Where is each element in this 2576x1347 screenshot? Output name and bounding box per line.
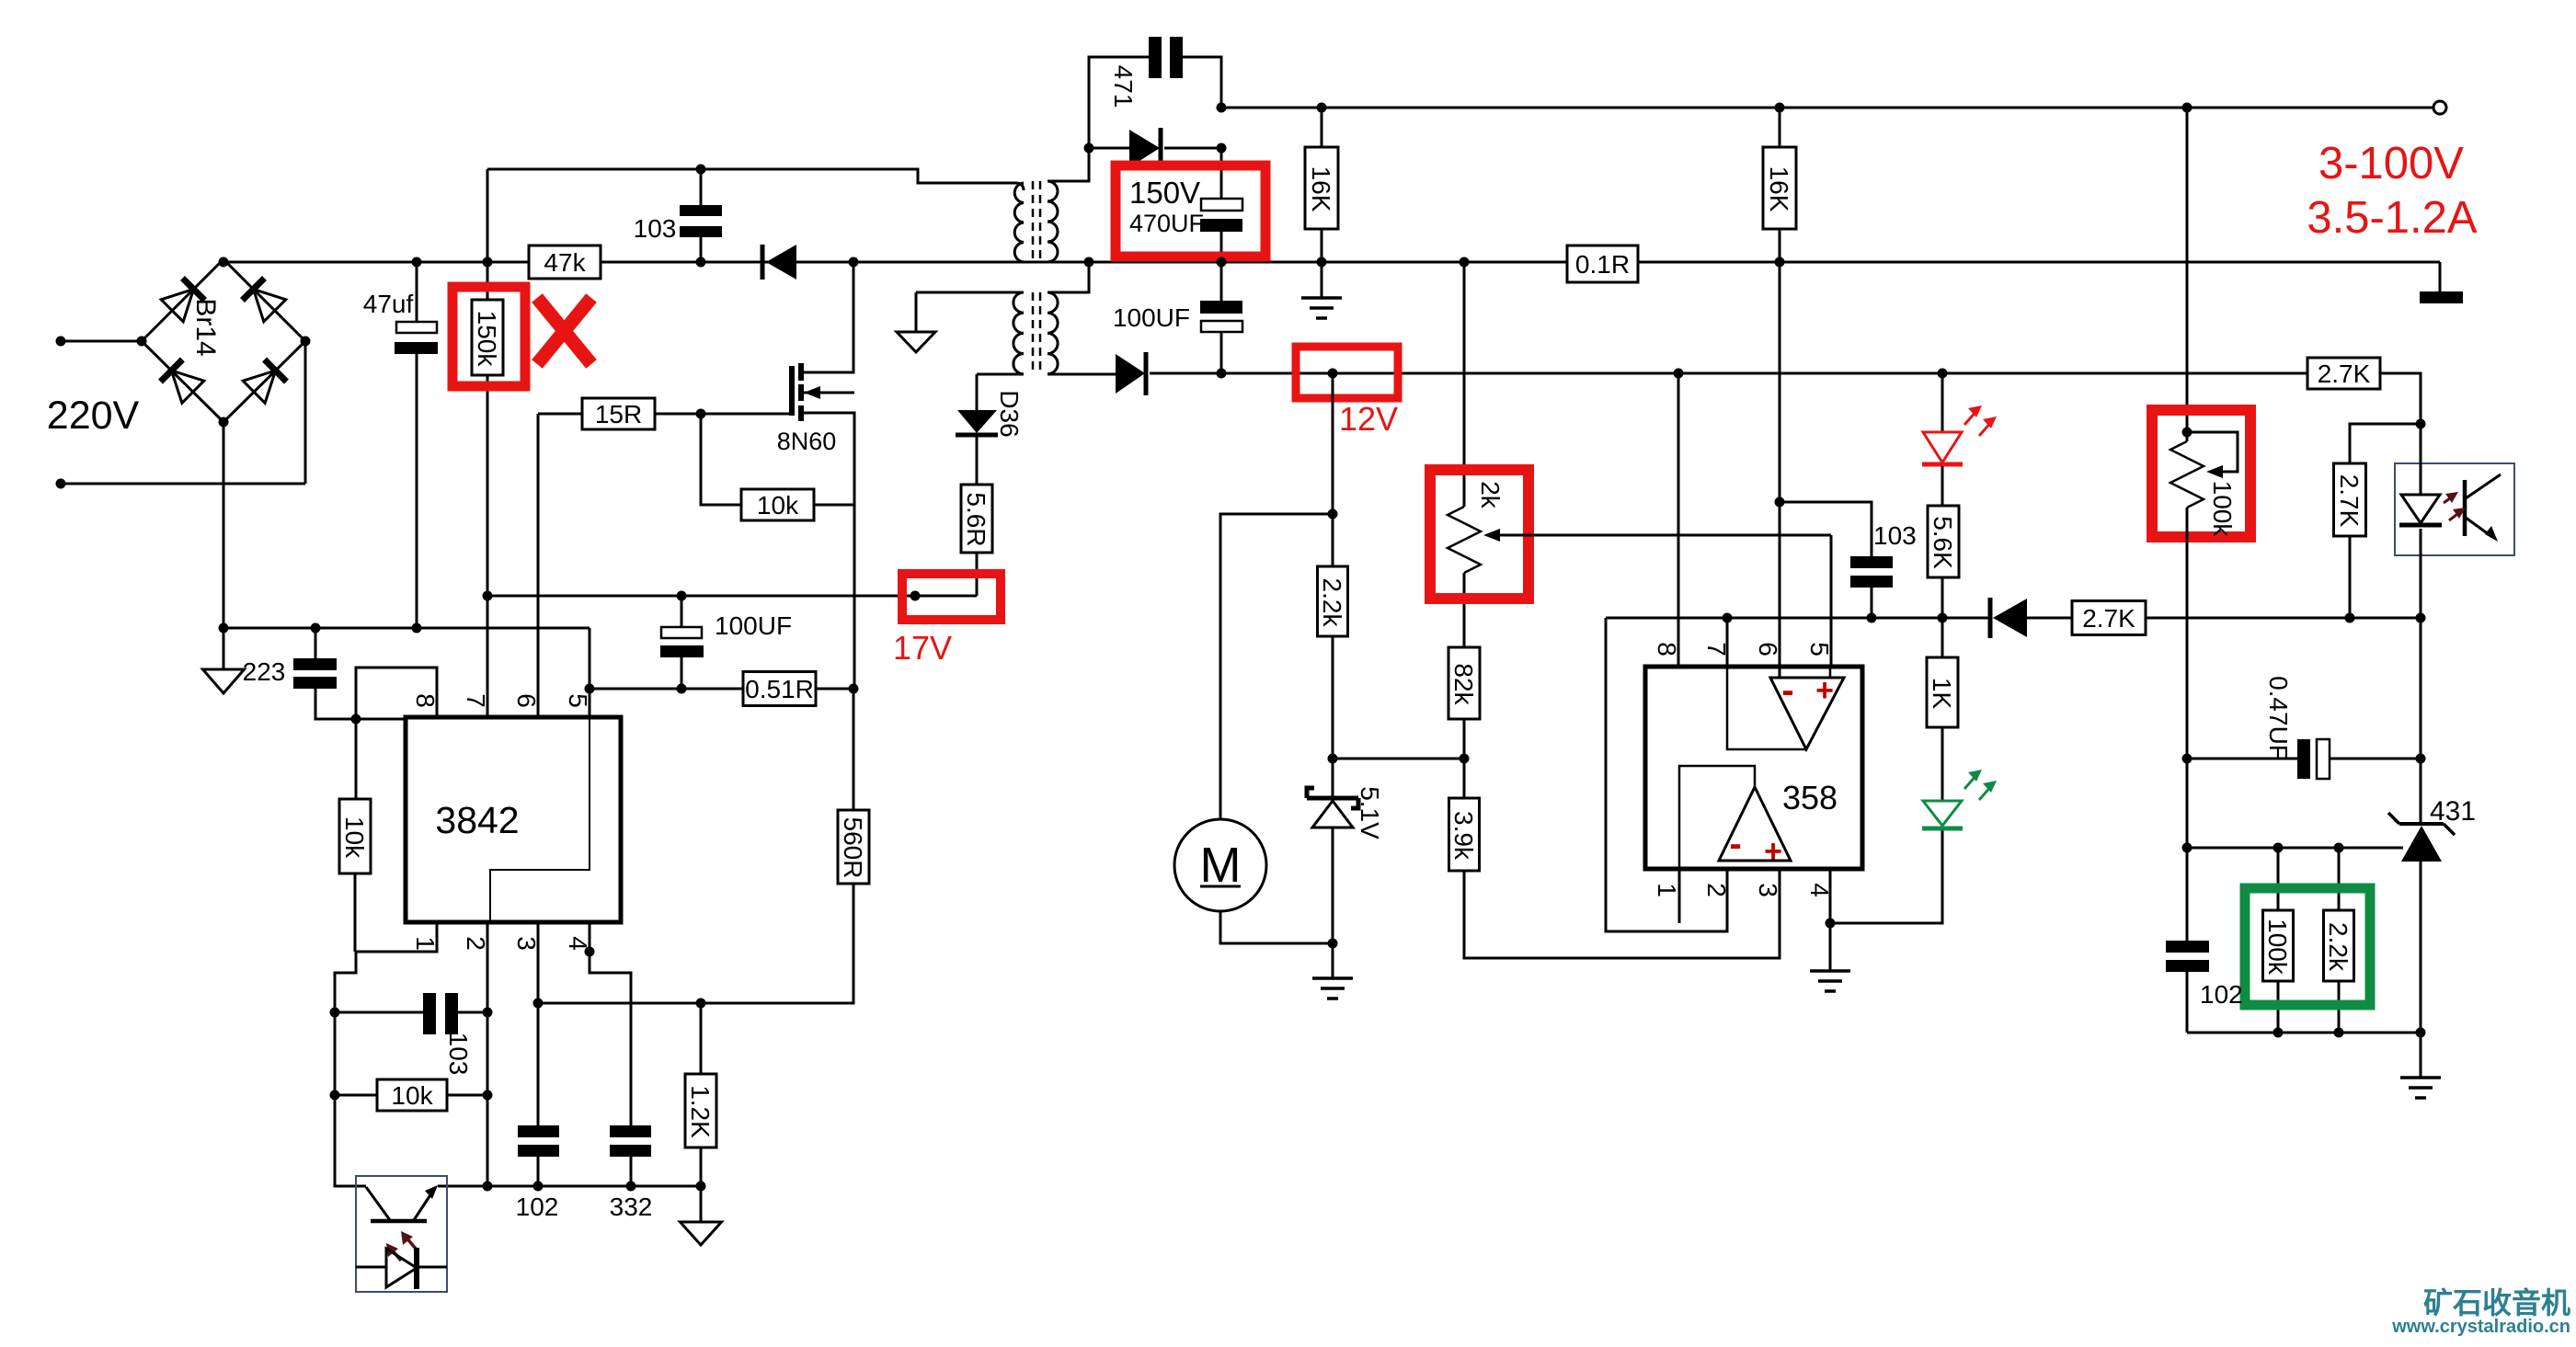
- svg-text:3: 3: [512, 936, 541, 951]
- wire 358 pin7 stub: [1726, 617, 1729, 667]
- wire pin4 route: [590, 922, 631, 1125]
- node source sense: [849, 684, 859, 694]
- wire 431 gnd stub: [2420, 1033, 2422, 1078]
- LED green indicator: [1922, 727, 1997, 828]
- capacitor 223: [293, 658, 337, 689]
- wire 332 bottom: [630, 1157, 633, 1186]
- bridge diode D4 (bottom to right): [243, 360, 286, 403]
- node pin8-12V: [1674, 369, 1684, 379]
- terminal output plus (open circle): [2433, 101, 2446, 114]
- label pin 8: [411, 693, 440, 708]
- node 2.7Kv bottom: [2345, 613, 2355, 623]
- resistor 150k: [472, 300, 503, 375]
- svg-text:560R: 560R: [839, 817, 867, 879]
- svg-text:102: 102: [516, 1193, 559, 1221]
- wire 150V cap bottom: [1220, 232, 1223, 262]
- svg-text:3.5-1.2A: 3.5-1.2A: [2307, 193, 2478, 243]
- potentiometer 100k: [2170, 441, 2204, 508]
- wire 102r top: [2186, 848, 2189, 941]
- node pin5: [585, 684, 595, 694]
- wire 150V cap top: [1220, 148, 1223, 199]
- resistor 2.7K mid: [2072, 601, 2146, 635]
- wire 223 gnd stub: [223, 628, 225, 669]
- op-amp U2B inputs: [1729, 824, 1782, 869]
- resistor 10k fb: [377, 1079, 447, 1111]
- potentiometer 100k wiper: [2187, 432, 2238, 478]
- transistor Q1 8N60 gate bar: [789, 366, 795, 416]
- resistor 560R: [838, 810, 869, 884]
- node 16K1 top: [1317, 103, 1327, 113]
- svg-text:5: 5: [564, 693, 592, 708]
- wire primary ground rail y683: [223, 628, 590, 689]
- node 103t bottom: [696, 257, 706, 268]
- label 102: [516, 1193, 559, 1221]
- optocoupler U3 phototransistor: [366, 1185, 438, 1221]
- wire 100UF2 top: [1220, 262, 1223, 301]
- svg-text:5.1V: 5.1V: [1356, 786, 1384, 839]
- wire pin5 row: [590, 688, 743, 691]
- svg-text:47uf: 47uf: [363, 290, 414, 318]
- wire 471 left: [1089, 57, 1149, 148]
- label 103 top: [634, 214, 677, 243]
- svg-text:5: 5: [1805, 642, 1834, 656]
- red box 12V: [1296, 347, 1398, 398]
- wire 12V rail y406: [1221, 372, 2307, 375]
- label pin 2: [462, 936, 490, 951]
- node bridge left: [137, 337, 147, 347]
- svg-text:332: 332: [610, 1193, 653, 1221]
- wire pin2 column: [487, 922, 489, 1186]
- wire pin8 route: [356, 668, 437, 719]
- label 3842: [435, 799, 519, 841]
- node 223 top: [311, 623, 321, 634]
- label 220V: [47, 394, 140, 438]
- transformer aux winding: [1013, 292, 1024, 374]
- wire 103t top stub: [700, 169, 703, 205]
- label 2k: [1476, 481, 1505, 509]
- svg-text:150V: 150V: [1129, 176, 1200, 210]
- op-amp U2A inputs: [1781, 670, 1834, 711]
- svg-text:100UF: 100UF: [1113, 303, 1190, 332]
- svg-text:M: M: [1200, 838, 1242, 893]
- label 0.47UF: [2264, 676, 2293, 760]
- wire 358 pin1 stub: [1678, 869, 1681, 923]
- resistor 2.2k: [1318, 566, 1348, 636]
- svg-text:470UF: 470UF: [1129, 210, 1204, 237]
- node drain junction: [849, 257, 859, 268]
- wire secondary top exit: [1048, 148, 1089, 181]
- wire 358 pin4 stub: [1829, 869, 1832, 923]
- label 100UF left: [715, 611, 792, 640]
- node gnd rail left: [219, 623, 229, 634]
- wire drain vertical: [804, 262, 853, 372]
- capacitor 471: [1149, 37, 1183, 78]
- svg-text:2k: 2k: [1476, 481, 1505, 509]
- wire 100k pot top: [2186, 108, 2189, 441]
- capacitor 103 (snubber): [680, 205, 722, 237]
- svg-text:www.crystalradio.cn: www.crystalradio.cn: [2391, 1317, 2570, 1337]
- wire op1 out route: [1727, 667, 1806, 749]
- svg-text:102: 102: [2200, 980, 2243, 1009]
- transistor Q1 8N60 source+body: [804, 386, 854, 690]
- bridge diode D3 (bottom to left): [161, 360, 204, 403]
- node fbb 431: [2416, 1028, 2426, 1038]
- wire 358 pin8 stub: [1677, 373, 1680, 667]
- wire 560R top: [853, 689, 855, 810]
- wire aux bottom exit: [977, 373, 1024, 376]
- wire gate y450: [538, 413, 789, 416]
- svg-text:10k: 10k: [391, 1081, 433, 1110]
- wire motor bottom: [1220, 911, 1333, 943]
- svg-text:3842: 3842: [435, 799, 519, 841]
- wire 0.47UF right: [2330, 758, 2421, 760]
- node 16K2 rail: [1775, 257, 1785, 268]
- wire 103b right: [458, 1011, 487, 1014]
- label D36: [995, 390, 1024, 437]
- svg-text:100UF: 100UF: [715, 611, 792, 640]
- svg-text:1: 1: [1653, 883, 1681, 897]
- label 223: [243, 657, 286, 686]
- wire 560R bottom: [701, 884, 853, 1003]
- wire 82k bottom: [1463, 719, 1466, 798]
- svg-text:16K: 16K: [1307, 166, 1335, 212]
- svg-text:Br14: Br14: [190, 298, 221, 356]
- node 12V test: [1328, 369, 1338, 379]
- node 100UF1 bottom: [677, 684, 687, 694]
- node pin3-560R junction: [533, 999, 544, 1009]
- svg-text:100k: 100k: [2208, 481, 2237, 538]
- node motor gnd junction: [1328, 939, 1338, 949]
- node div 100k: [2273, 843, 2284, 853]
- wire op2 out route: [1679, 766, 1755, 869]
- node pin4 jog: [585, 947, 595, 957]
- optocoupler U3 LED: [356, 1248, 447, 1289]
- node 0.47UF left: [2182, 754, 2192, 764]
- resistor 2.7K vertical: [2334, 463, 2366, 536]
- label 5.1V: [1356, 786, 1384, 839]
- capacitor 470UF 150V: [1200, 199, 1242, 232]
- resistor 3.9k: [1449, 798, 1480, 871]
- ground 16K1: [1301, 298, 1342, 318]
- svg-text:8: 8: [1653, 642, 1681, 656]
- resistor 16K right: [1763, 108, 1796, 229]
- svg-text:2: 2: [462, 936, 490, 951]
- node pin8-10k-223: [351, 714, 361, 725]
- svg-text:8N60: 8N60: [777, 428, 837, 455]
- ground aux (triangle): [897, 332, 935, 352]
- svg-text:2: 2: [1702, 883, 1731, 897]
- wire 47uf bottom stub: [416, 354, 418, 628]
- svg-text:16K: 16K: [1765, 166, 1793, 212]
- svg-text:103: 103: [444, 1033, 473, 1076]
- optocoupler U4 LED: [2399, 424, 2442, 618]
- resistor 15R: [582, 398, 655, 429]
- ground zener: [1312, 978, 1353, 999]
- label 103 bottom: [444, 1033, 473, 1076]
- resistor 47k: [529, 245, 601, 279]
- resistor 5.6K: [1928, 466, 1959, 618]
- node fbb 100k: [2273, 1028, 2284, 1038]
- svg-text:3: 3: [1754, 883, 1782, 897]
- label 358 pin 5: [1805, 642, 1834, 656]
- diode snubber (points left): [701, 245, 853, 280]
- wire primary top entry: [1015, 183, 1024, 190]
- svg-text:2.7K: 2.7K: [2335, 474, 2364, 528]
- wire 103r top route: [1779, 502, 1872, 556]
- wire N to bridge right vertex: [304, 341, 307, 484]
- node 103t top: [696, 165, 706, 175]
- wire main HV rail y285: [223, 261, 2440, 264]
- svg-text:0.47UF: 0.47UF: [2264, 676, 2293, 760]
- wire 358 pin6 stub: [1779, 667, 1781, 678]
- optocoupler U3 light arrows: [386, 1231, 416, 1261]
- svg-text:358: 358: [1782, 779, 1838, 816]
- wire pin6 stub: [537, 414, 540, 717]
- label 470UF: [1129, 210, 1204, 237]
- node 47uf top: [412, 257, 422, 268]
- svg-text:+: +: [1815, 673, 1834, 708]
- node 1.2K bottom: [696, 1181, 706, 1192]
- node 103b left: [330, 1008, 340, 1018]
- red X mark: [537, 298, 591, 364]
- svg-text:D36: D36: [995, 390, 1024, 437]
- wire 5.6R bottom: [976, 553, 979, 596]
- green box divider: [2245, 888, 2370, 1005]
- wire 431 column: [2420, 618, 2422, 824]
- wire 100UF2 bottom: [1220, 332, 1223, 373]
- svg-text:5.6R: 5.6R: [962, 492, 990, 546]
- label 358 pin 8: [1653, 642, 1681, 656]
- svg-text:-: -: [1729, 824, 1741, 864]
- svg-text:+: +: [1764, 834, 1782, 869]
- wire bottom rail left: [335, 1095, 366, 1186]
- diode D36: [956, 374, 998, 435]
- label 150V: [1129, 176, 1200, 210]
- bridge rectifier Br14 diamond: [142, 259, 305, 422]
- svg-text:103: 103: [634, 214, 677, 243]
- wire 1.2K bottom: [700, 1147, 703, 1186]
- wire 358 pin2 loop: [1606, 618, 1727, 931]
- svg-text:471: 471: [1109, 65, 1138, 108]
- node gate-10k junction: [696, 409, 706, 419]
- wire zener row: [1333, 758, 1464, 760]
- node diode-cap junction: [1217, 143, 1227, 154]
- AC input terminal L: [56, 337, 143, 347]
- wire x530 column top: [487, 169, 489, 300]
- label pin 4: [564, 936, 592, 951]
- wire 100UF1 top stub: [681, 596, 683, 627]
- node opto LED bottom: [2416, 613, 2426, 623]
- svg-text:0.51R: 0.51R: [745, 675, 814, 703]
- wire 1.2K gnd stub: [700, 1186, 703, 1222]
- wire 10kh left: [335, 1012, 377, 1095]
- capacitor 103 (comp): [1850, 556, 1893, 588]
- label pin 6: [512, 693, 541, 708]
- wire 3.9k to pin3: [1464, 869, 1780, 958]
- ground 1.2K (triangle): [681, 1222, 722, 1245]
- node 17V test point: [910, 591, 921, 601]
- node 471-diode left: [1084, 143, 1094, 154]
- wire 16K1 gnd stub: [1321, 262, 1323, 298]
- svg-text:8: 8: [411, 693, 440, 708]
- label 358 pin 4: [1805, 883, 1834, 897]
- wire pin3 to 560R: [538, 1002, 701, 1005]
- svg-text:103: 103: [1873, 521, 1917, 550]
- bridge diode D1 (left to top): [161, 279, 204, 322]
- wire 100UF1 bottom stub: [681, 657, 683, 689]
- capacitor 47uf: [395, 322, 438, 354]
- label 358 pin 6: [1754, 642, 1782, 656]
- optocoupler U4 box: [2395, 463, 2514, 555]
- label 47uf: [363, 290, 414, 318]
- wire zener gnd stub: [1332, 943, 1334, 978]
- wire 2.7Kv top route: [2350, 424, 2421, 463]
- wire 223 cap bottom: [315, 689, 356, 719]
- svg-text:2.2k: 2.2k: [1318, 578, 1346, 628]
- wire wiper to pin5: [1830, 535, 1833, 678]
- wire divider top row: [2187, 847, 2403, 850]
- wire pin4 to green LED: [1830, 830, 1942, 923]
- node div 2.2k: [2334, 843, 2344, 853]
- svg-text:12V: 12V: [1339, 400, 1398, 438]
- watermark text: [2391, 1286, 2570, 1337]
- wire 150k bottom to VCC node: [487, 375, 489, 596]
- svg-text:10k: 10k: [340, 816, 369, 859]
- node fbb 2.2k: [2334, 1028, 2344, 1038]
- wire primary bottom exit: [853, 261, 1024, 264]
- label 471: [1109, 65, 1138, 108]
- wire motor top: [1220, 514, 1333, 819]
- wire VCC y648: [487, 595, 977, 598]
- node red LED top: [1938, 369, 1948, 379]
- svg-text:0.1R: 0.1R: [1575, 250, 1630, 279]
- node top rail left: [1217, 103, 1227, 113]
- label pin 3: [512, 936, 541, 951]
- wire 0.47UF left: [2187, 758, 2297, 760]
- node 47k left junction: [483, 257, 493, 268]
- svg-text:100k: 100k: [2263, 919, 2292, 976]
- svg-text:47k: 47k: [544, 248, 586, 277]
- node rail 102: [533, 1181, 544, 1192]
- label pin 7: [462, 693, 490, 708]
- wire fb bottom row: [2187, 1032, 2421, 1034]
- node VCC-pin7: [483, 591, 493, 601]
- transformer core lower: [1033, 292, 1040, 374]
- ground 358: [1810, 971, 1850, 991]
- node 47uf bottom: [412, 623, 422, 634]
- label 358 pin 3: [1754, 883, 1782, 897]
- node 0.47UF right: [2416, 754, 2426, 764]
- wire 0.51R right: [816, 688, 853, 691]
- svg-text:15R: 15R: [595, 400, 642, 428]
- label 431: [2430, 796, 2476, 827]
- capacitor 100UF (12V): [1200, 301, 1242, 332]
- label 103 right: [1873, 521, 1917, 550]
- label 100k: [2208, 481, 2237, 538]
- node 16K1 bottom: [1317, 257, 1327, 268]
- red box around 150k: [452, 287, 525, 386]
- node pin7 out: [1723, 613, 1733, 623]
- optocoupler U4 light arrows: [2444, 492, 2466, 520]
- TL431 U5: [2388, 813, 2455, 1033]
- IC U1 3842 box: [406, 717, 621, 922]
- red box 150V 470UF: [1116, 166, 1265, 257]
- node 560R-1.2K junction: [696, 999, 706, 1009]
- label 102 right: [2200, 980, 2243, 1009]
- svg-text:223: 223: [243, 657, 286, 686]
- wire 102 bottom: [537, 1157, 540, 1186]
- resistor 0.1R: [1567, 245, 1638, 282]
- wire 47uf top stub: [416, 262, 418, 322]
- svg-text:10k: 10k: [757, 491, 799, 519]
- svg-text:82k: 82k: [1449, 663, 1478, 705]
- wire op1 output rail y672: [1606, 617, 1990, 620]
- red box 100k: [2152, 410, 2250, 537]
- node bridge bottom: [219, 417, 229, 428]
- wire pin4 gnd stub: [1829, 923, 1832, 971]
- op-amp U2A triangle: [1770, 678, 1844, 749]
- wire 12V winding bottom: [1048, 373, 1116, 376]
- svg-text:矿石收音机: 矿石收音机: [2423, 1286, 2570, 1319]
- wire output minus drop: [2439, 262, 2442, 291]
- svg-text:2.7K: 2.7K: [2318, 360, 2371, 388]
- wire 102r bottom: [2186, 972, 2189, 1033]
- capacitor 100UF (VCC): [660, 627, 704, 657]
- LED red indicator: [1922, 373, 1997, 464]
- svg-text:2.2k: 2.2k: [2324, 922, 2353, 972]
- wire 10k gate left: [701, 414, 741, 505]
- svg-text:-: -: [1781, 670, 1793, 711]
- capacitor 332: [610, 1125, 651, 1157]
- svg-text:1.2K: 1.2K: [686, 1085, 715, 1138]
- label 8N60: [777, 428, 837, 455]
- label 332: [610, 1193, 653, 1221]
- wire 10kh right: [447, 1094, 487, 1097]
- wire 103t bottom stub: [700, 236, 703, 262]
- wire output+ rail y117: [1221, 107, 2433, 109]
- svg-text:7: 7: [1702, 642, 1731, 656]
- node 10kh left: [330, 1090, 340, 1101]
- wire pin3 column: [537, 922, 540, 1125]
- wire 2.2k top: [1332, 373, 1334, 566]
- node zener top: [1328, 754, 1338, 764]
- node rail 332: [626, 1181, 636, 1192]
- label 17V: [893, 629, 952, 667]
- node sec2 top junction: [1084, 257, 1094, 268]
- IC 3842 internal gnd route: [490, 717, 590, 922]
- node 100k top: [2182, 428, 2192, 438]
- node VCC-100UF: [677, 591, 687, 601]
- node bridge top: [219, 257, 229, 268]
- wire pin5 stub: [589, 689, 591, 717]
- wire 16K2 column: [1779, 229, 1781, 667]
- capacitor 0.47UF: [2297, 739, 2330, 779]
- node 103r: [1867, 613, 1877, 623]
- potentiometer 2k: [1448, 501, 1481, 647]
- motor M1: [1174, 819, 1266, 911]
- resistor 5.6R: [961, 437, 992, 553]
- wire 103b left: [335, 1011, 423, 1014]
- ground primary (triangle): [203, 669, 245, 693]
- resistor 10k vcc divider: [339, 719, 371, 952]
- ground aux stub: [915, 292, 918, 332]
- node 16K2 top: [1775, 103, 1785, 113]
- diode secondary rectifier: [1089, 128, 1221, 168]
- node 82k-3.9k junction: [1460, 754, 1470, 764]
- resistor 1.2K: [685, 1074, 716, 1147]
- wire 2.7Kv bottom: [2349, 536, 2352, 618]
- wire y184 primary top: [487, 169, 1015, 183]
